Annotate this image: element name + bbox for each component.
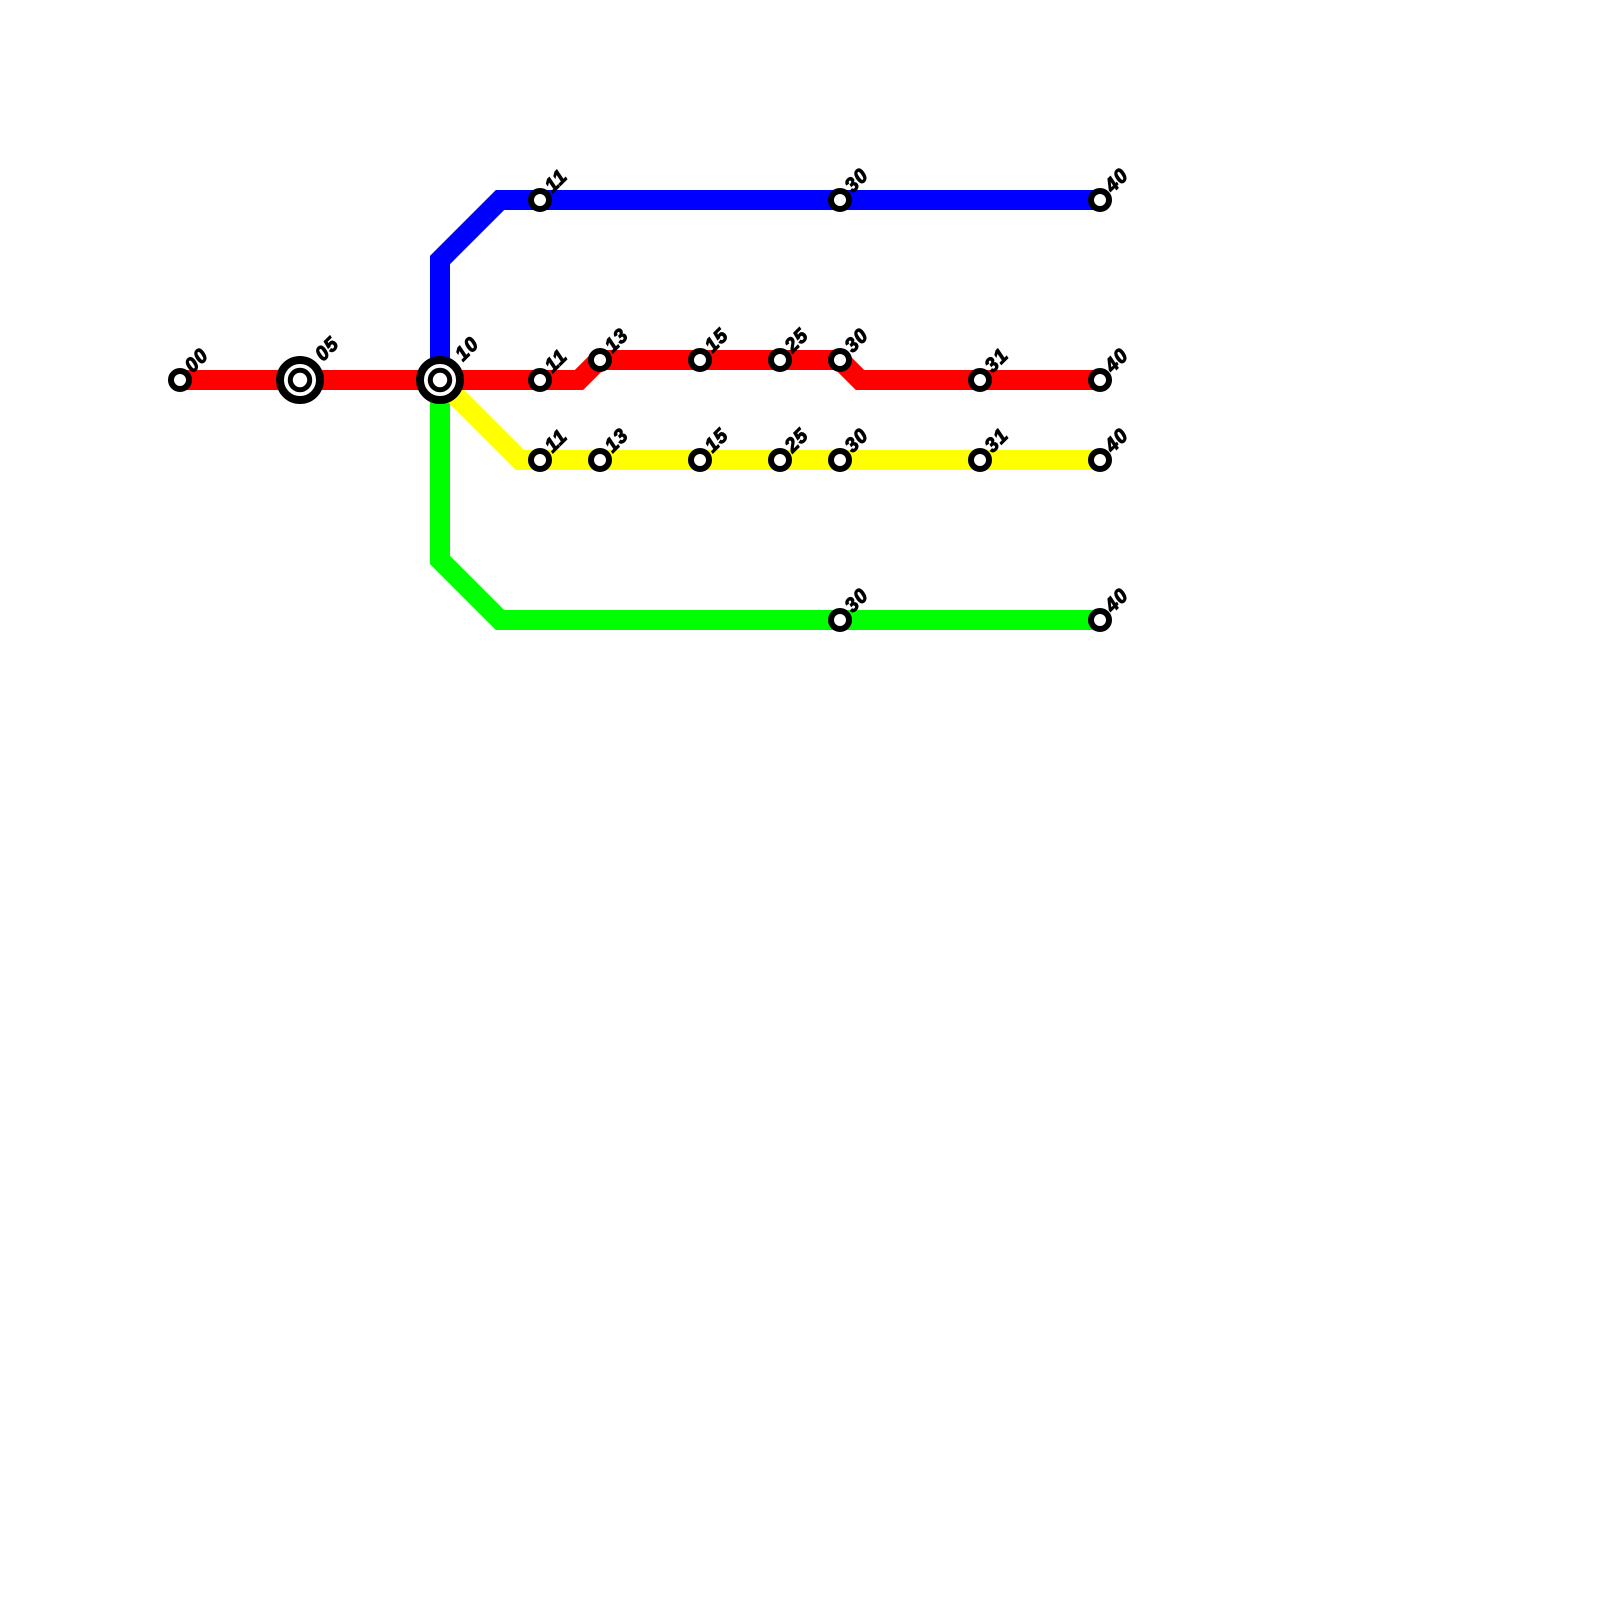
interchange station 10 — [420, 360, 460, 400]
station 31 yellow — [971, 451, 989, 469]
station 11 red — [531, 371, 549, 389]
blue line — [440, 200, 1100, 380]
station 00 red — [171, 371, 189, 389]
station 25 red — [771, 351, 789, 369]
station 31 red — [971, 371, 989, 389]
station 25 yellow — [771, 451, 789, 469]
station 13 red — [591, 351, 609, 369]
red line — [180, 360, 1100, 380]
station 40 green — [1091, 611, 1109, 629]
yellow line — [440, 380, 1100, 460]
station 40 blue — [1091, 191, 1109, 209]
station 30 blue — [831, 191, 849, 209]
station 30 red — [831, 351, 849, 369]
interchange station 05 — [280, 360, 320, 400]
station 15 red — [691, 351, 709, 369]
station 15 yellow — [691, 451, 709, 469]
station 30 yellow — [831, 451, 849, 469]
station 11 yellow — [531, 451, 549, 469]
station 30 green — [831, 611, 849, 629]
station 40 red — [1091, 371, 1109, 389]
station 40 yellow — [1091, 451, 1109, 469]
green line — [440, 380, 1100, 620]
station 13 yellow — [591, 451, 609, 469]
station 11 blue — [531, 191, 549, 209]
